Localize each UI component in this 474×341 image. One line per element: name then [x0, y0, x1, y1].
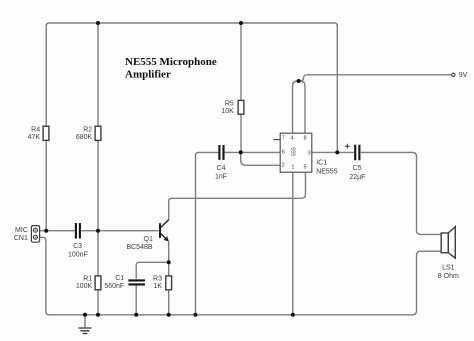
svg-text:560nF: 560nF	[104, 283, 124, 290]
ground symbol	[79, 328, 92, 334]
svg-text:1nF: 1nF	[215, 174, 227, 181]
junction R4 at mic signal	[44, 229, 48, 233]
svg-text:22µF: 22µF	[349, 174, 365, 181]
speaker LS1	[441, 227, 455, 259]
junction R2/R1 at C3 output	[96, 229, 100, 233]
svg-text:8: 8	[303, 136, 306, 142]
junction R1 at bus	[96, 313, 100, 317]
junction Q1 emitter with C1 and R3	[167, 260, 171, 264]
svg-text:IC1: IC1	[316, 160, 327, 167]
svg-text:7: 7	[282, 136, 285, 142]
junction R5 at top bus	[239, 21, 243, 25]
svg-text:C3: C3	[73, 243, 82, 250]
svg-text:3: 3	[308, 150, 311, 156]
junction C4 branch at bus	[194, 313, 198, 317]
junction ground stub at bus	[83, 313, 87, 317]
svg-text:6: 6	[282, 150, 285, 156]
svg-text:680K: 680K	[76, 134, 93, 141]
capacitor C3 plates	[76, 223, 80, 239]
wire pin 2 to pins node	[241, 152, 281, 165]
svg-text:5: 5	[303, 165, 306, 171]
wire C3 to Q1 base	[81, 230, 160, 232]
resistor R2	[95, 126, 101, 140]
svg-text:LS1: LS1	[442, 264, 455, 271]
wire ground stub	[84, 315, 86, 328]
svg-text:R5: R5	[225, 100, 234, 107]
junction 9V tap on pins 4-8 bridge	[297, 79, 301, 83]
svg-text:BC548B: BC548B	[126, 244, 152, 251]
IC pin numbers	[282, 136, 311, 171]
svg-text:Q1: Q1	[144, 236, 153, 243]
capacitor C5 plates	[355, 145, 359, 161]
svg-text:47K: 47K	[28, 134, 41, 141]
svg-text:C1: C1	[115, 275, 124, 282]
transistor Q1 emitter arrow	[164, 236, 169, 241]
wire C5 right with corner down to speaker upper lead	[361, 152, 441, 234]
svg-text:2: 2	[282, 162, 285, 168]
junction R2 at top bus	[96, 21, 100, 25]
wire C1 bottom to bus	[135, 284, 137, 314]
junction C1 at bus	[134, 313, 138, 317]
wire Q1 collector up and right to pin 5	[169, 172, 306, 220]
resistor R4	[43, 126, 49, 140]
svg-text:8 Ohm: 8 Ohm	[438, 273, 459, 280]
C5 plus sign	[345, 144, 350, 149]
svg-text:Amplifier: Amplifier	[125, 68, 171, 80]
resistor R1	[95, 276, 101, 290]
wire 9V supply lead	[299, 75, 452, 81]
svg-text:100nF: 100nF	[68, 251, 88, 258]
wire pin 1 down to bus	[292, 172, 294, 315]
resistor R3	[166, 276, 172, 290]
capacitor C1 plates	[128, 280, 145, 284]
svg-text:R4: R4	[31, 126, 40, 133]
svg-text:R2: R2	[83, 126, 92, 133]
resistor R5	[238, 100, 244, 114]
wire C4 right to pin 6	[225, 151, 281, 153]
junction pin 3 output node	[335, 150, 339, 154]
connector CN1 pin 2 center	[35, 237, 36, 238]
junction pins 2 and 6 with C4 and R5	[239, 150, 243, 154]
transistor Q1	[160, 220, 169, 240]
svg-text:10K: 10K	[221, 108, 234, 115]
connector CN1 pin 1 center	[35, 230, 36, 231]
svg-text:MIC: MIC	[15, 227, 28, 234]
wire Q1 emitter down to node	[168, 241, 170, 262]
svg-text:R1: R1	[83, 276, 92, 283]
svg-text:CN1: CN1	[14, 235, 28, 242]
wire R5 vertical line	[240, 23, 242, 152]
svg-text:1K: 1K	[153, 283, 162, 290]
wire C4 left branch down to bus	[196, 152, 219, 314]
wire mic ground, bottom ground bus and speaker lower lead	[40, 237, 442, 314]
svg-text:100K: 100K	[76, 283, 93, 290]
svg-text:C4: C4	[217, 165, 226, 172]
wire pin 3 to C5	[312, 151, 354, 153]
svg-text:C5: C5	[353, 165, 362, 172]
wire top bus with left vertical and right corner down to pin3 node	[46, 23, 337, 231]
capacitor C4 plates	[219, 145, 223, 160]
svg-text:1: 1	[291, 165, 294, 171]
pin 7 stub	[273, 139, 280, 141]
junction pin 1 at bus	[291, 313, 295, 317]
wire emitter node to R3 and R3 to bus	[168, 262, 170, 315]
timer IC IC1 NE555 body	[280, 133, 312, 172]
connector CN1	[31, 226, 39, 243]
svg-text:9V: 9V	[459, 72, 468, 79]
svg-text:555: 555	[291, 147, 297, 156]
wire R2/R1 vertical line	[97, 23, 99, 315]
svg-text:NE555 Microphone: NE555 Microphone	[125, 56, 217, 68]
svg-text:R3: R3	[153, 275, 162, 282]
svg-text:4: 4	[290, 136, 293, 142]
junction R3 at bus	[167, 313, 171, 317]
wire emitter node to C1 top	[136, 262, 169, 279]
wire pins 4 and 8 bridge	[293, 81, 306, 133]
wire mic signal to C3	[40, 230, 75, 232]
9V terminal circle	[452, 73, 455, 76]
svg-text:NE555: NE555	[316, 169, 338, 176]
